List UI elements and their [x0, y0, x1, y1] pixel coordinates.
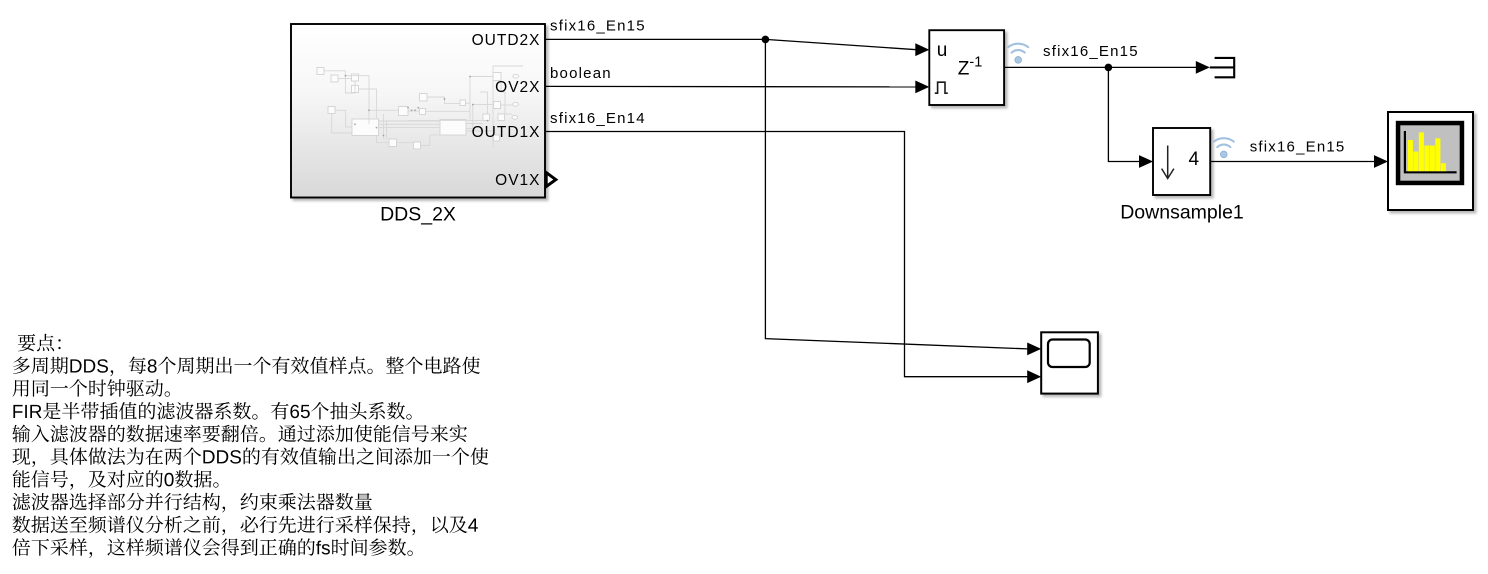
svg-text:Downsample1: Downsample1: [1120, 202, 1244, 224]
arrowhead at Delay u input: [915, 43, 929, 56]
svg-text:OUTD1X: OUTD1X: [472, 124, 541, 141]
svg-text:OV2X: OV2X: [495, 79, 540, 96]
wire OUTD1X -> Scope input 2 (down and right): [545, 132, 1028, 377]
spectrum icon axes: [1405, 131, 1457, 172]
wire OV2X -> Delay enable input: [545, 85, 917, 88]
svg-text:boolean: boolean: [550, 65, 612, 82]
streaming (wifi) icon at Delay output: [1015, 57, 1022, 64]
block Scope: [1041, 332, 1098, 393]
arrowhead at Terminator input: [1196, 61, 1210, 74]
arrowhead at Downsample1 input: [1139, 155, 1153, 168]
annotation text (Chinese notes, 10 lines): [12, 334, 488, 558]
scope screen: [1048, 340, 1090, 368]
downsample arrow icon: [1162, 146, 1174, 179]
enable pulse symbol: [935, 82, 948, 93]
wire junction -> Delay input u (sloped): [765, 39, 916, 49]
block Terminator: [1210, 58, 1234, 77]
svg-text:u: u: [937, 40, 948, 61]
svg-text:sfix16_En14: sfix16_En14: [550, 110, 646, 127]
svg-text:sfix16_En15: sfix16_En15: [1250, 138, 1346, 155]
svg-text:OV1X: OV1X: [495, 172, 540, 189]
junction node on OUTD2X wire: [762, 36, 770, 44]
spectrum icon yellow bars: [1408, 132, 1446, 171]
streaming (wifi) icon at Downsample1 output: [1221, 151, 1228, 158]
thumbnail mini-schematic inside DDS_2X: [317, 68, 519, 150]
junction node 2: [1105, 64, 1113, 72]
svg-text:4: 4: [1189, 149, 1200, 170]
wire OUTD2X -> junction: [545, 38, 765, 40]
svg-text:OUTD2X: OUTD2X: [472, 32, 541, 49]
arrowhead at Delay enable input: [915, 81, 929, 94]
block Spectrum Analyzer: [1388, 112, 1473, 210]
wire junction2 -> Downsample1 input: [1108, 67, 1139, 161]
arrowhead at Scope input 2: [1027, 370, 1041, 383]
unconnected output port OV1X chevron: [546, 173, 556, 187]
wire branch junction -> Scope input 1: [765, 39, 1028, 349]
block Downsample1: [1153, 128, 1210, 195]
thumbnail junction dots: [345, 75, 489, 136]
block Delay z^-1: [929, 30, 1004, 105]
wire Delay out -> junction2: [1004, 66, 1108, 68]
svg-text:sfix16_En15: sfix16_En15: [550, 18, 646, 35]
thumbnail wires: [324, 66, 523, 148]
svg-text:sfix16_En15: sfix16_En15: [1043, 43, 1139, 60]
wire Downsample1 -> Spectrum Analyzer: [1210, 161, 1374, 163]
arrowhead at Scope input 1: [1027, 343, 1041, 356]
svg-text:DDS_2X: DDS_2X: [380, 203, 456, 225]
arrowhead at Spectrum Analyzer input: [1374, 155, 1388, 168]
wire junction2 -> Terminator: [1108, 66, 1196, 68]
block DDS_2X (subsystem): [291, 24, 545, 198]
